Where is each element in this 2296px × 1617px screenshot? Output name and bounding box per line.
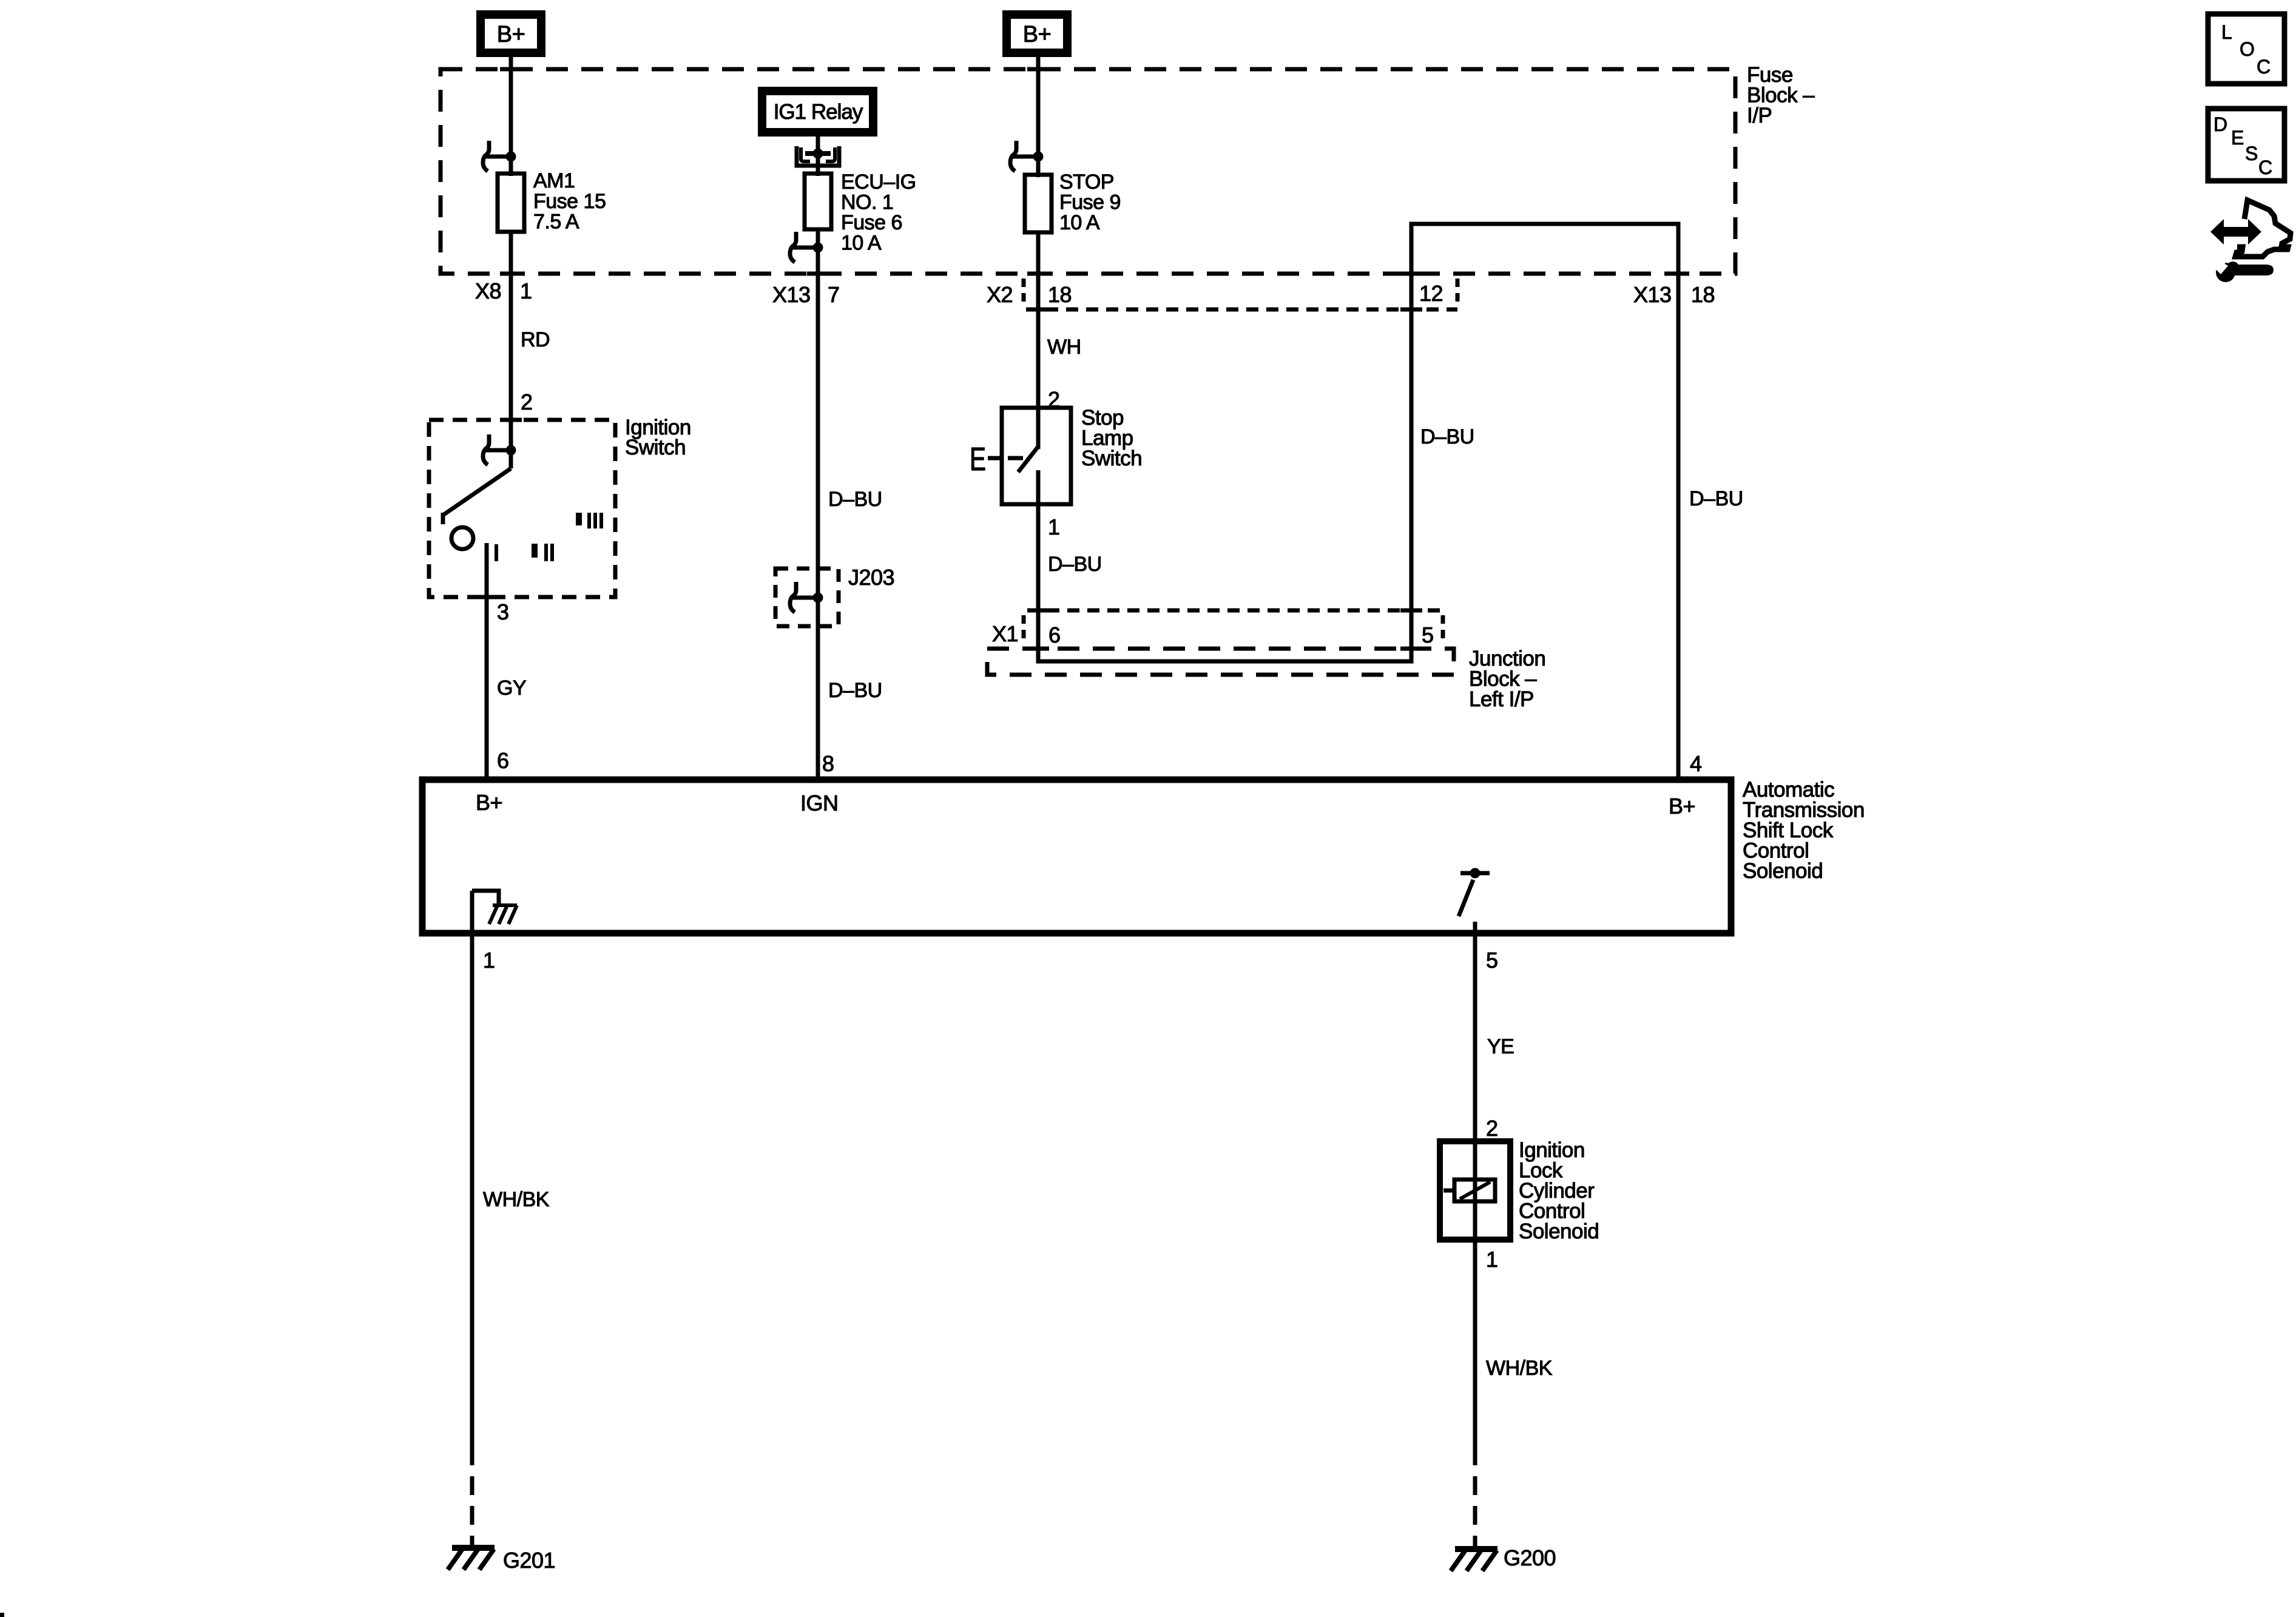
svg-text:D–BU: D–BU (1420, 425, 1474, 448)
pin 2 label (lock cylinder solenoid) (1486, 1116, 1498, 1141)
wire color label D-BU (loop right) (1689, 487, 1743, 510)
internal case ground inside solenoid (pin 1 branch) (472, 891, 517, 933)
svg-text:18: 18 (1691, 282, 1715, 307)
stop lamp switch blade (1018, 447, 1038, 504)
junction tick at fuse block top edge (left wire) (500, 67, 522, 72)
component: Automatic Transmission Shift Lock Control Solenoid box (422, 780, 1731, 933)
connector hook and junction dot at J203 (790, 582, 823, 612)
svg-text:Fuse 15: Fuse 15 (533, 190, 606, 213)
ignition switch contact circle (451, 527, 473, 549)
ground G200 (1451, 1545, 1556, 1571)
svg-text:J203: J203 (848, 565, 894, 590)
ticks where loop crosses fuse block bottom and label X13 | 18 (1400, 274, 1715, 307)
junction block upper dotted row (pins 18 ... 12) (1026, 279, 1457, 309)
svg-text:2: 2 (521, 390, 533, 414)
connector label X13 | 7 (772, 282, 840, 307)
wire color label D-BU (above J203) (828, 488, 882, 511)
label: Fuse Block - I/P (1747, 63, 1815, 127)
svg-text:X13: X13 (1633, 282, 1672, 307)
pin 1 label (stop lamp switch) (1048, 515, 1060, 539)
power terminal B+ (right battery feed) (1007, 15, 1067, 53)
pin 1 label (solenoid left) (483, 948, 495, 973)
svg-text:5: 5 (1486, 948, 1498, 973)
svg-text:12: 12 (1419, 281, 1443, 306)
connector hook inside ignition switch (483, 434, 516, 465)
svg-text:Left I/P: Left I/P (1469, 687, 1534, 711)
svg-text:6: 6 (1048, 623, 1061, 647)
label: Ignition Lock Cylinder Control Solenoid (1519, 1138, 1599, 1243)
svg-text:Solenoid: Solenoid (1519, 1220, 1599, 1243)
svg-text:IG1 Relay: IG1 Relay (774, 100, 863, 124)
connector (fuse holder clip) at AM1 (483, 141, 516, 171)
internal switch inside solenoid (pin 5 branch) (1459, 868, 1490, 934)
wire color label RD (521, 328, 550, 351)
svg-text:7.5 A: 7.5 A (533, 211, 579, 234)
splice J203 dashed box (775, 565, 894, 626)
svg-text:D–BU: D–BU (1048, 553, 1102, 576)
svg-text:1: 1 (483, 948, 495, 973)
svg-text:E: E (970, 441, 986, 478)
wire color label YE (1487, 1035, 1514, 1058)
wire: IG1 relay to ECU-IG fuse (816, 132, 820, 176)
svg-text:D–BU: D–BU (1689, 487, 1743, 510)
svg-text:D–BU: D–BU (828, 679, 882, 702)
connector X13 pin 7 tick at fuse block bottom (807, 272, 829, 276)
svg-text:Fuse 6: Fuse 6 (841, 211, 902, 234)
wire: solenoid pin 5 to ignition lock cylinder control solenoid (YE) (1473, 933, 1477, 1547)
fuse block - I/P dashed outline (441, 69, 1735, 274)
svg-text:10 A: 10 A (1059, 211, 1100, 234)
svg-text:L: L (2221, 21, 2232, 43)
svg-text:1: 1 (520, 279, 532, 303)
connector hook below ECU-IG fuse (790, 232, 823, 262)
svg-text:Switch: Switch (625, 436, 686, 459)
fuse STOP Fuse 9 10 A (1025, 170, 1121, 234)
label: Junction Block - Left I/P (1469, 647, 1545, 711)
svg-text:STOP: STOP (1059, 170, 1114, 194)
connector X8 pin 1 tick at fuse block bottom (500, 272, 522, 276)
wire: B+ left terminal to fuse AM1 (509, 53, 513, 176)
label: Ignition Switch (625, 416, 691, 459)
ignition switch position marks I, II, III (495, 513, 603, 561)
service/location icon (arrow, body panel, wrench) (2210, 200, 2291, 282)
connector label X2 | 18 with dotted pin row (987, 279, 1072, 308)
connector hook at STOP fuse (1010, 141, 1044, 171)
wire color label WH/BK (left) (483, 1188, 550, 1211)
pin 3 label (497, 599, 509, 624)
wire: ECU-IG fuse to solenoid pin 8 (D-BU) (816, 229, 820, 780)
wire: fuse AM1 to ignition switch pin 2 (RD) (509, 232, 513, 453)
svg-text:D: D (2213, 113, 2227, 135)
pin 4 label (1690, 751, 1702, 776)
svg-text:IGN: IGN (800, 791, 839, 815)
svg-text:RD: RD (521, 328, 550, 351)
component: Ignition Lock Cylinder Control Solenoid (1440, 1141, 1510, 1240)
wire color label WH (1047, 336, 1081, 359)
svg-text:YE: YE (1487, 1035, 1514, 1058)
svg-text:7: 7 (828, 282, 840, 307)
junction block X1 dotted pin row (pins 6 ... 5) (992, 610, 1443, 647)
svg-text:E: E (2231, 127, 2244, 149)
svg-text:B+: B+ (497, 22, 525, 47)
svg-text:X1: X1 (992, 621, 1018, 646)
fuse ECU-IG NO. 1 Fuse 6 10 A (805, 170, 916, 255)
ground G201 (448, 1548, 555, 1573)
pin 5 label (solenoid right) (1486, 948, 1498, 973)
svg-text:1: 1 (1048, 515, 1060, 539)
svg-text:10 A: 10 A (841, 232, 882, 255)
stop lamp switch box (1002, 406, 1142, 504)
wire: ignition switch pin 3 to solenoid pin 6 (GY) (485, 543, 489, 780)
wire color label GY (497, 677, 526, 700)
stop lamp switch actuator E with dashed link (970, 441, 1023, 478)
svg-text:AM1: AM1 (533, 169, 575, 192)
junction block - left I/P dashed outline (987, 649, 1454, 675)
svg-text:3: 3 (497, 599, 509, 624)
pin 2 label (stop lamp switch) (1048, 387, 1060, 412)
svg-text:D–BU: D–BU (828, 488, 882, 511)
svg-text:O: O (2240, 38, 2255, 60)
svg-text:C: C (2257, 56, 2271, 78)
wire: stop lamp switch through junction block pins 6-5, up over loop to solenoid pin 4 (D-BU) (1038, 224, 1678, 780)
pin 2 label (ignition switch) (521, 390, 533, 414)
svg-text:6: 6 (497, 748, 509, 773)
svg-text:C: C (2258, 157, 2272, 178)
pin 6 label (497, 748, 509, 773)
tick crossing fuse block top at right wire (1027, 67, 1049, 72)
artifact mark bottom-left (0, 1613, 4, 1617)
svg-text:Switch: Switch (1081, 447, 1142, 470)
wire color label D-BU (stop lamp to junction block) (1048, 553, 1102, 576)
svg-text:ECU–IG: ECU–IG (841, 170, 916, 194)
svg-text:Solenoid: Solenoid (1743, 859, 1823, 883)
svg-text:WH/BK: WH/BK (483, 1188, 550, 1211)
wire color label D-BU (below J203) (828, 679, 882, 702)
svg-text:G201: G201 (503, 1548, 555, 1573)
ignition switch blade (pin 2 to contact) (443, 450, 511, 524)
svg-text:2: 2 (1486, 1116, 1498, 1141)
svg-text:S: S (2245, 143, 2258, 164)
svg-text:WH: WH (1047, 336, 1081, 359)
connector label X8 | 1 (475, 279, 532, 303)
svg-text:WH/BK: WH/BK (1486, 1357, 1553, 1380)
svg-text:1: 1 (1486, 1247, 1498, 1272)
label: Automatic Transmission Shift Lock Control Solenoid (1743, 778, 1865, 883)
svg-text:GY: GY (497, 677, 526, 700)
svg-text:NO. 1: NO. 1 (841, 191, 893, 214)
connector X2 pin 18 tick at fuse block bottom (1027, 272, 1049, 276)
navigation box DESC (2208, 109, 2284, 181)
svg-text:X13: X13 (772, 282, 811, 307)
navigation box LOC (2208, 14, 2284, 84)
svg-text:Fuse 9: Fuse 9 (1059, 191, 1121, 214)
ignition switch dashed outline (429, 420, 615, 597)
svg-text:B+: B+ (476, 790, 502, 815)
svg-text:B+: B+ (1023, 22, 1052, 47)
svg-text:B+: B+ (1669, 794, 1695, 819)
wire: B+ right terminal to STOP fuse (1036, 53, 1041, 177)
wire: STOP fuse to stop lamp switch (WH) (1036, 232, 1041, 449)
svg-text:18: 18 (1048, 282, 1072, 307)
svg-text:8: 8 (822, 751, 834, 776)
wire: solenoid pin 1 to ground G201 (WH/BK) (470, 933, 474, 1547)
svg-text:I/P: I/P (1747, 104, 1772, 127)
svg-text:G200: G200 (1504, 1545, 1556, 1570)
relay IG1 Relay (name box) (762, 91, 873, 132)
svg-text:5: 5 (1422, 623, 1434, 647)
tick where wire crosses ignition switch box top (500, 418, 522, 422)
fuse AM1 Fuse 15 7.5 A (498, 169, 606, 234)
pin 1 label (lock cylinder solenoid) (1486, 1247, 1498, 1272)
tick where wire crosses ignition switch box bottom (476, 595, 498, 599)
relay socket bracket below IG1 relay (797, 146, 839, 166)
svg-text:X2: X2 (987, 282, 1013, 307)
wire color label WH/BK (right) (1486, 1357, 1553, 1380)
wire color label D-BU (loop left) (1420, 425, 1474, 448)
svg-text:4: 4 (1690, 751, 1702, 776)
svg-text:X8: X8 (475, 279, 501, 303)
pin 8 label (822, 751, 834, 776)
power terminal B+ (left battery feed) (481, 15, 541, 53)
